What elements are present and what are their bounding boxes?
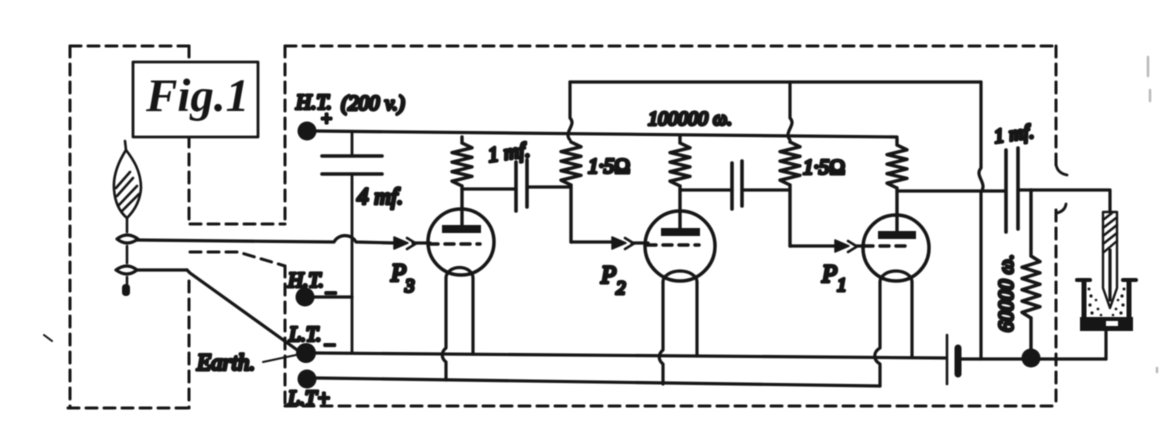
resistor 100000-ohm anode load of P2 [670, 137, 690, 228]
wire: L.T.+ bus [316, 378, 880, 386]
resistor 1.5-ohm grid leak of P2 [561, 142, 581, 242]
svg-text:L.T.: L.T. [288, 322, 321, 346]
wire: grid stub P2 [632, 241, 648, 244]
svg-text:4 mf.: 4 mf. [357, 184, 403, 209]
triode P1 grid (dashed) [864, 244, 912, 247]
triode P2 envelope [645, 211, 715, 281]
dashed border curl at output exit [1056, 164, 1067, 175]
wire: P3 anode junction to coupling cap [462, 187, 516, 190]
faint scan marks right margin [1148, 57, 1157, 372]
svg-text:1 mf.: 1 mf. [486, 137, 531, 167]
electrode stem end bead [126, 277, 129, 284]
wire: grid lead P2 [571, 240, 614, 243]
terminal H.T.+ [298, 122, 317, 141]
svg-text:1 mf.: 1 mf. [993, 121, 1036, 148]
wire: riser to grid resistor 2 (hops H.T. rail) [788, 82, 792, 140]
dashed link upper (between boxes) [190, 223, 285, 226]
triode P1 anode plate [878, 231, 916, 239]
svg-text:P: P [600, 262, 616, 289]
resistor 1.5-ohm grid leak of P1 [780, 142, 800, 246]
enclosure: left input-unit dashed box [68, 46, 190, 408]
wire: L.T.- bus [315, 353, 945, 358]
resistor 100000-ohm anode load of P3 [452, 137, 472, 225]
triode P1 base (neck) [880, 271, 912, 282]
enclosure: main amplifier dashed box [285, 46, 1056, 406]
svg-text:H.T.: H.T. [287, 268, 324, 292]
triode P3 envelope [428, 209, 494, 275]
triode P3 anode plate [442, 225, 481, 233]
resistor 60000-ohm shunt [1022, 190, 1040, 356]
wire: grid lead P1 [790, 244, 836, 247]
wire: output lead from P1 anode [897, 189, 1005, 192]
wire: P3 filament lead to L.T.+ bus (hops L.T.- bus) [442, 278, 446, 380]
svg-text:1·5Ω: 1·5Ω [588, 154, 630, 178]
wire: P1 filament lead joins L.T.+ bus (hops L.T.- bus) [875, 282, 880, 386]
svg-text:60000 ω.: 60000 ω. [994, 254, 1018, 332]
stray mark left margin [44, 335, 52, 341]
svg-text:(200 v.): (200 v.) [341, 91, 405, 115]
svg-text:Earth.: Earth. [196, 350, 255, 375]
terminal L.T.+ [298, 370, 317, 389]
triode P3 base (neck) [446, 268, 473, 279]
dashed link lower (between boxes) [190, 252, 285, 266]
svg-text:P: P [821, 261, 837, 288]
arrow into grid P2 [612, 237, 626, 249]
svg-text:+: + [320, 109, 333, 130]
capacitor C3 (coupling P2-P1) [730, 163, 734, 209]
svg-text:100000 ω.: 100000 ω. [648, 108, 732, 130]
triode P2 anode plate [661, 228, 700, 236]
triode P1 envelope [863, 215, 929, 281]
wire: output coupling to recorder [1018, 190, 1110, 212]
wire: P2 filament lead to L.T.+ bus (hops L.T.- bus) [659, 282, 663, 384]
capacitor C4 1 mf (output) [1004, 150, 1008, 232]
input transducer (flame element) [114, 141, 141, 218]
cell liquid stipple [1088, 288, 1126, 317]
wire: cell return to battery node [1104, 331, 1107, 359]
recorder pen electrode [1103, 212, 1117, 308]
resistor 100000-ohm anode load of P1 [887, 139, 907, 231]
wire: grid-bias top rail [570, 80, 981, 83]
arrow into grid P3 [394, 237, 408, 249]
svg-text:_: _ [325, 275, 336, 296]
battery B1 (grid bias) [946, 335, 949, 384]
wire: lower input lead [137, 268, 187, 271]
arrow into grid P1 [835, 240, 849, 252]
junction dot output/battery node [1022, 349, 1041, 368]
node: upper electrode (lens) [126, 218, 129, 232]
terminal L.T.- [296, 343, 316, 363]
triode P2 base (neck) [663, 271, 697, 282]
capacitor C2 1 mf (coupling P3-P2) [514, 162, 518, 211]
wire: riser to bias battery (hops output wire) [979, 82, 983, 359]
wire: riser to grid resistor 1 (hops H.T. rail) [568, 82, 572, 140]
triode P3 grid (dashed) [429, 242, 480, 245]
wire: battery to output network [962, 357, 1106, 360]
node: lower electrode (lens) [126, 246, 129, 263]
svg-text:Fig.1: Fig.1 [145, 70, 249, 122]
svg-text:L.T+: L.T+ [287, 386, 331, 410]
wire: upper input lead to grid of P3 (with hop over capacitor lead) [137, 236, 395, 243]
Fig.1 label box [133, 62, 258, 137]
svg-text:1·5Ω: 1·5Ω [803, 155, 845, 179]
svg-text:3: 3 [404, 276, 415, 297]
wire: grid stub P3 [413, 241, 430, 244]
wire: grid stub P1 [856, 244, 865, 247]
electrolytic cell cup [1082, 282, 1087, 325]
wire: H.T.+ rail [314, 131, 897, 137]
svg-text:2: 2 [616, 278, 626, 299]
svg-text:P: P [390, 260, 406, 287]
svg-text:1: 1 [837, 275, 847, 296]
svg-text:_: _ [324, 327, 335, 348]
capacitor C1 4 mf (reservoir) [351, 133, 354, 156]
wire: earth diagonal to L.T.- terminal [187, 270, 300, 352]
wire: P2 anode junction to coupling cap [680, 188, 732, 191]
wire: H.T.- to reservoir capacitor [313, 295, 352, 298]
terminal H.T.- [296, 288, 315, 307]
triode P2 grid (dashed) [647, 243, 699, 246]
